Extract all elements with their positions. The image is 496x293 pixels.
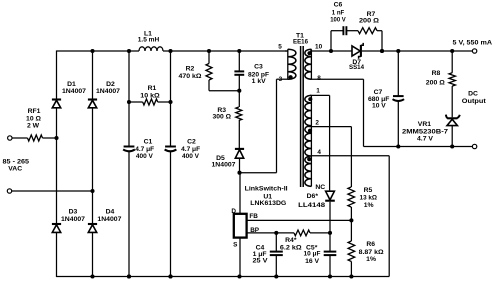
label pin 10 [315, 43, 323, 50]
label pin 5 [278, 43, 282, 50]
wire transformer pin 3 column [277, 79, 289, 173]
node C2 bottom rail junction [168, 274, 172, 278]
svg-text:2: 2 [315, 119, 319, 126]
wire C3 column [238, 51, 240, 91]
svg-text:R2: R2 [186, 65, 195, 72]
node snubber-right junction [380, 49, 384, 53]
wire R1 row [129, 101, 171, 103]
wire U1 drain pin [239, 173, 241, 214]
svg-text:10 kΩ: 10 kΩ [140, 92, 160, 99]
svg-text:400 V: 400 V [182, 153, 199, 160]
label VR1 voltage [417, 135, 433, 142]
label C1 value [135, 146, 154, 153]
svg-text:300 Ω: 300 Ω [213, 114, 232, 121]
wire pin 10 to snubber node [310, 50, 352, 52]
label output rating [453, 40, 493, 47]
svg-text:LNK613DG: LNK613DG [250, 200, 286, 207]
resistor RF1 (fusible) [28, 135, 43, 141]
label R8 [432, 70, 441, 77]
svg-text:1%: 1% [366, 256, 376, 263]
node snubber-left junction [329, 49, 333, 53]
node C1 bottom rail junction [127, 274, 131, 278]
svg-text:8: 8 [317, 75, 321, 82]
label DC output 2 [462, 98, 487, 105]
label C3 [254, 64, 263, 71]
wire snubber left riser [330, 31, 332, 51]
svg-text:DC: DC [468, 90, 478, 97]
wire output rail [362, 50, 472, 52]
node D2 top rail junction [90, 49, 94, 53]
wire R6 bottom [350, 262, 352, 277]
resistor R3 300 [236, 107, 242, 121]
label R7 value [359, 18, 380, 25]
label D3 [69, 208, 78, 215]
wire AC input line bottom [12, 190, 93, 192]
node C5 bottom junction [328, 274, 332, 278]
svg-text:10: 10 [315, 43, 323, 50]
svg-text:C2: C2 [187, 138, 196, 145]
terminal AC input top [8, 136, 12, 140]
wire pin 4 return [311, 156, 389, 277]
label U1 name [245, 186, 288, 193]
node clamp R2-C3 junction [237, 89, 241, 93]
capacitor C2 4.7uF 400V [165, 147, 177, 152]
diode D4 1N4007 [88, 224, 97, 232]
label pin 4 [317, 149, 321, 156]
svg-text:C3: C3 [254, 64, 263, 71]
resistor R6 8.87k [348, 241, 355, 262]
svg-text:1%: 1% [364, 202, 374, 209]
svg-text:13 kΩ: 13 kΩ [360, 195, 378, 202]
svg-text:R1: R1 [148, 85, 157, 92]
node R8 top junction [450, 49, 454, 53]
svg-text:1: 1 [316, 88, 320, 95]
svg-text:R8: R8 [432, 70, 441, 77]
wire C2 column [170, 51, 172, 277]
node VR1 bottom junction [450, 144, 454, 148]
label R4 value [280, 245, 302, 252]
label DC output [468, 90, 478, 97]
node U1 source bottom junction [237, 274, 241, 278]
node C2 bottom junction [168, 274, 172, 278]
label D5 [216, 155, 225, 162]
transformer T1 secondary winding (pins 10-8) [305, 49, 312, 79]
wire snubber mid [347, 30, 358, 32]
transformer T1 core [301, 46, 304, 187]
label D5 value [212, 161, 236, 168]
node secondary phase dot pin 10 [307, 51, 311, 55]
label R6 value [359, 249, 385, 256]
diode D3 1N4007 [52, 224, 61, 232]
svg-text:EE16: EE16 [293, 38, 308, 45]
svg-text:1.5 mH: 1.5 mH [138, 37, 160, 44]
svg-text:VAC: VAC [8, 166, 22, 173]
label R5 value [360, 195, 378, 202]
wire D6 cathode to BP node [329, 202, 331, 252]
label U1 ref [263, 193, 272, 200]
node AC2-bridge junction [90, 189, 94, 193]
label R2 [186, 65, 195, 72]
label C6 [334, 2, 343, 9]
label U1 pin S [233, 242, 238, 249]
resistor R1 10k [143, 99, 158, 105]
label R8 value [426, 79, 446, 86]
terminal AC input bottom [7, 189, 11, 193]
wire pin 2 to divider [308, 127, 351, 187]
svg-text:4: 4 [317, 149, 321, 156]
svg-text:1N4007: 1N4007 [97, 216, 121, 223]
wire top rail (rectifier output, + DC bus) [57, 50, 289, 52]
wire D2 column [92, 51, 94, 277]
node BP C4 junction [274, 231, 278, 235]
label D2 value [96, 88, 120, 95]
node AC1-bridge junction [54, 136, 58, 140]
svg-text:470 kΩ: 470 kΩ [179, 73, 203, 80]
label C1 [144, 138, 153, 145]
transformer T1 primary winding (pins 5-3) [285, 49, 296, 79]
svg-text:400 V: 400 V [136, 153, 153, 160]
label U1 pin BP [250, 227, 260, 234]
wire C7 column [397, 51, 399, 147]
capacitor C4 1uF 25V [270, 252, 283, 256]
wire D1 column [56, 50, 58, 277]
resistor R7 200 [358, 28, 377, 34]
svg-text:D4: D4 [106, 208, 115, 215]
label RF1 [28, 108, 41, 115]
wire R8 column [451, 51, 453, 147]
wire bottom rail (primary return) [57, 276, 390, 278]
label U1 pin D [231, 208, 236, 215]
label C4 [256, 244, 265, 251]
wire snubber right [377, 31, 382, 51]
svg-text:LL4148: LL4148 [298, 202, 325, 209]
label D1 value [62, 88, 86, 95]
resistor R5 13k [348, 187, 355, 207]
wire C4 column [275, 233, 277, 277]
svg-text:5 V, 550 mA: 5 V, 550 mA [453, 40, 493, 47]
diode D5 1N4007 [235, 149, 244, 158]
svg-text:R6: R6 [366, 241, 375, 248]
label D3 value [61, 216, 85, 223]
label R7 [367, 11, 376, 18]
node R2 top junction [207, 49, 211, 53]
capacitor C1 4.7uF 400V [123, 147, 135, 152]
label C3 voltage [252, 78, 266, 85]
label C6 voltage [330, 16, 346, 23]
node D4 bottom rail junction [90, 274, 94, 278]
svg-text:D: D [231, 208, 236, 215]
node C7 bottom junction [396, 144, 400, 148]
node phase dot pin 4 [307, 157, 311, 161]
svg-text:4.7 V: 4.7 V [417, 135, 433, 142]
label pin 1 [316, 88, 320, 95]
label D7 [352, 59, 361, 66]
wire U1 source pin [239, 238, 241, 277]
label U1 part [250, 200, 286, 207]
node phase dot pin 1 [308, 97, 312, 101]
label C2 value [181, 146, 200, 153]
svg-text:D1: D1 [67, 81, 76, 88]
svg-text:R4*: R4* [285, 237, 297, 244]
wire snubber top left [331, 30, 343, 32]
node C3 top junction [237, 49, 241, 53]
node R7 output junction [380, 49, 384, 53]
inductor L1 [139, 47, 163, 51]
svg-text:6.2 kΩ: 6.2 kΩ [280, 245, 302, 252]
label C1 voltage [136, 153, 153, 160]
svg-text:1N4007: 1N4007 [61, 216, 85, 223]
svg-text:1N4007: 1N4007 [96, 88, 120, 95]
svg-text:C6: C6 [334, 2, 343, 9]
capacitor C6 1nF 100V [343, 26, 346, 35]
svg-text:2 W: 2 W [27, 122, 40, 129]
resistor R8 200 [449, 73, 455, 86]
label D7 value [349, 64, 364, 71]
label D4 [106, 208, 115, 215]
svg-text:100 V: 100 V [330, 16, 346, 23]
node BP C5 junction [328, 231, 332, 235]
svg-text:FB: FB [249, 213, 258, 220]
svg-text:VR1: VR1 [418, 121, 431, 128]
label D1 [67, 81, 76, 88]
svg-text:C1: C1 [144, 138, 153, 145]
label R6 [366, 241, 375, 248]
label D2 [106, 81, 115, 88]
label L1 value [138, 37, 160, 44]
label VR1 [418, 121, 431, 128]
svg-text:Output: Output [462, 98, 487, 105]
node C7 top junction [396, 49, 400, 53]
wire pin1/D6 column [310, 95, 330, 190]
label R1 [148, 85, 157, 92]
label pin NC [315, 184, 325, 191]
wire D5 to drain node [239, 158, 241, 173]
svg-text:10 Ω: 10 Ω [26, 115, 41, 122]
wire R2 bottom to clamp node [209, 90, 239, 92]
label C7 value [368, 96, 390, 103]
svg-text:RF1: RF1 [28, 108, 41, 115]
label pin 3 [279, 76, 283, 83]
label U1 pin FB [249, 213, 258, 220]
node primary phase dot pin 3 [289, 75, 293, 79]
svg-text:1 nF: 1 nF [332, 9, 345, 16]
wire AC input line top [12, 137, 57, 139]
terminal +5V output [472, 49, 476, 53]
svg-text:D2: D2 [106, 81, 115, 88]
label R1 value [140, 92, 160, 99]
label C7 voltage [372, 103, 386, 110]
wire pin 8 to output return [310, 79, 472, 146]
svg-text:2MM5230B-7: 2MM5230B-7 [402, 128, 448, 135]
label C5 value [304, 251, 321, 258]
node phase dot pin 2 [308, 129, 312, 133]
label R3 value [213, 114, 232, 121]
wire BP net [247, 232, 330, 234]
wire R2 column [208, 51, 210, 91]
label L1 [144, 30, 152, 37]
svg-text:R5: R5 [364, 187, 373, 194]
wire C5 bottom [329, 255, 331, 276]
svg-text:200 Ω: 200 Ω [359, 18, 380, 25]
label D6 [307, 193, 319, 200]
diode D7 SS14 (schottky) [352, 43, 363, 59]
label D4 value [97, 216, 121, 223]
svg-text:16 V: 16 V [305, 258, 319, 265]
label T1 core type [293, 38, 308, 45]
label C2 [187, 138, 196, 145]
label C6 value [332, 9, 345, 16]
svg-text:D3: D3 [69, 208, 78, 215]
label T1 [296, 32, 304, 39]
svg-text:SS14: SS14 [349, 64, 364, 71]
svg-text:25 V: 25 V [253, 258, 268, 265]
label AC input 2 [8, 166, 22, 173]
svg-text:1 kV: 1 kV [252, 78, 266, 85]
node C1 bottom junction [127, 274, 131, 278]
node R6 bottom junction [349, 274, 353, 278]
label pin 8 [317, 75, 321, 82]
svg-text:1N4007: 1N4007 [62, 88, 86, 95]
node C1 R1 junction [127, 100, 131, 104]
label pin 2 [315, 119, 319, 126]
node drain junction [237, 171, 241, 175]
node FB divider junction [349, 218, 353, 222]
label R5 [364, 187, 373, 194]
label C5 [306, 245, 318, 252]
svg-text:D6*: D6* [307, 193, 319, 200]
label C5 voltage [305, 258, 319, 265]
label R5 tol [364, 202, 374, 209]
label RF1 value [26, 115, 41, 122]
IC U1 LNK613DG (LinkSwitch-II) box [234, 214, 247, 238]
svg-text:10 V: 10 V [372, 103, 386, 110]
label C3 value [248, 71, 269, 78]
diode D6 LL4148 [325, 191, 335, 201]
svg-text:3: 3 [279, 76, 283, 83]
capacitor C3 820pF 1kV [234, 71, 244, 74]
svg-text:NC: NC [315, 184, 325, 191]
diode D1 1N4007 [52, 100, 61, 108]
node C1 top junction [127, 49, 131, 53]
node C2 top junction [168, 49, 172, 53]
capacitor C5 10uF 16V [324, 252, 337, 256]
label RF1 power [27, 122, 40, 129]
label C4 voltage [253, 258, 268, 265]
svg-text:5: 5 [278, 43, 282, 50]
label C7 [374, 89, 383, 96]
resistor R4 6.2k [294, 230, 310, 236]
zener diode VR1 4.7V [446, 115, 460, 126]
node C2 R1 junction [168, 100, 172, 104]
transformer T1 bias/sense winding (pins 1-2-4-NC) [305, 95, 312, 186]
svg-text:LinkSwitch-II: LinkSwitch-II [245, 186, 288, 193]
wire FB net [247, 219, 352, 221]
wire R5 to R6 [350, 207, 352, 241]
label R3 [217, 107, 226, 114]
node C4 bottom junction [274, 274, 278, 278]
wire C1 column [128, 51, 130, 277]
diode D2 1N4007 [88, 100, 97, 108]
svg-text:10 μF: 10 μF [304, 251, 321, 258]
label VR1 part [402, 128, 448, 135]
terminal output return [472, 144, 476, 148]
label C2 voltage [182, 153, 199, 160]
label R6 tol [366, 256, 376, 263]
wire R3 column [238, 91, 240, 149]
label AC input [3, 158, 30, 165]
label R4 [285, 237, 297, 244]
svg-text:S: S [233, 242, 238, 249]
svg-text:200 Ω: 200 Ω [426, 79, 446, 86]
svg-text:1N4007: 1N4007 [212, 161, 236, 168]
wire drain node to transformer pin 3 [240, 172, 277, 174]
capacitor C7 680uF 10V [393, 96, 405, 101]
label R2 value [179, 73, 203, 80]
label C4 value [253, 251, 267, 258]
resistor R2 470k [206, 64, 212, 81]
label D6 value [298, 202, 325, 209]
svg-text:85 - 265: 85 - 265 [3, 158, 30, 165]
